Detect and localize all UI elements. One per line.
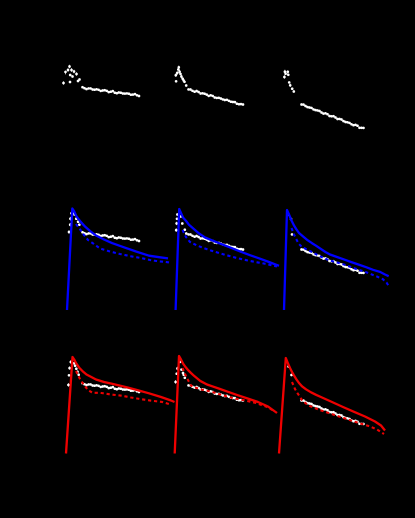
white data points with error bars, bottom row panel 2 [174,361,186,384]
white data points with error bars, middle row panel 3 [287,213,293,236]
blue dashed model component, middle row panel 3 [292,228,390,287]
white data points with error bars, top row panel 3 [283,70,365,129]
red dashed model component, bottom row panel 2 [183,368,275,411]
red dashed model component, bottom row panel 3 [292,382,384,434]
blue dashed model component, middle row panel 2 [183,230,278,267]
blue solid model light curve with steep rise, middle row panel 1 [67,209,168,311]
white data points with error bars, top row panel 1 [62,65,140,97]
red solid model light curve with steep rise, bottom row panel 2 [175,356,277,454]
red solid model light curve with steep rise, bottom row panel 1 [66,357,175,454]
white data points with error bars, bottom row panel 3 [287,365,293,376]
white data points with error bars, bottom row panel 1 [67,361,80,387]
blue solid model light curve with steep rise, middle row panel 3 [284,210,389,310]
white data points with error bars, middle row panel 1 [68,211,81,233]
white data points with error bars, middle row panel 2 [175,213,188,235]
red solid model light curve with steep rise, bottom row panel 3 [279,358,385,454]
white data points with error bars, top row panel 2 [174,66,244,106]
red dashed model component, bottom row panel 1 [76,371,170,404]
blue dashed model component, middle row panel 1 [76,224,171,263]
blue solid model light curve with steep rise, middle row panel 2 [176,209,279,310]
